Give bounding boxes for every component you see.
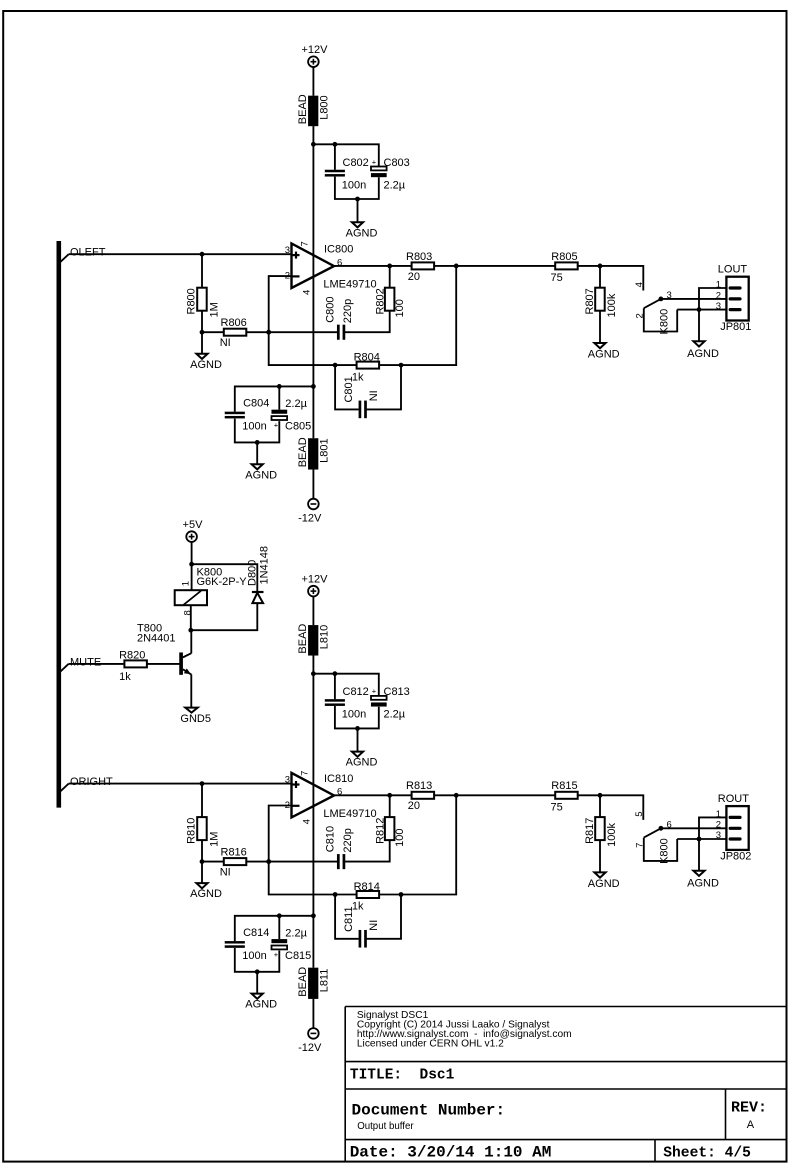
wire connector pin2 (signal) bbox=[661, 827, 729, 829]
svg-text:C811: C811 bbox=[343, 906, 355, 931]
ferrite bead L801 bbox=[297, 437, 331, 469]
svg-text:A: A bbox=[747, 1119, 755, 1131]
ground AGND (connector) bbox=[687, 871, 719, 890]
svg-text:220p: 220p bbox=[342, 299, 354, 323]
svg-text:C805: C805 bbox=[285, 421, 311, 433]
resistor R820 1k bbox=[119, 649, 147, 683]
svg-text:+12V: +12V bbox=[302, 44, 329, 56]
capacitor C804 100n bbox=[225, 398, 270, 433]
resistor R807 100k bbox=[584, 266, 618, 345]
resistor R816 NI bbox=[202, 846, 271, 878]
resistor R812 100 bbox=[374, 795, 406, 847]
svg-text:100: 100 bbox=[394, 299, 406, 317]
svg-text:100k: 100k bbox=[606, 823, 618, 847]
svg-text:3: 3 bbox=[716, 301, 721, 312]
capacitor C811 NI bbox=[343, 906, 380, 947]
ground AGND (connector) bbox=[687, 341, 719, 360]
resistor R817 100k bbox=[584, 795, 618, 874]
capacitor C814 100n bbox=[225, 927, 270, 962]
svg-text:-12V: -12V bbox=[298, 513, 322, 525]
svg-text:NI: NI bbox=[368, 390, 380, 401]
wire to relay contact bbox=[578, 264, 644, 291]
svg-text:3: 3 bbox=[716, 830, 721, 841]
wire inverting input bbox=[266, 276, 291, 335]
ground AGND (termination) bbox=[588, 343, 620, 361]
capacitor C802 100n bbox=[325, 157, 369, 192]
svg-text:1: 1 bbox=[180, 581, 191, 586]
svg-text:2.2µ: 2.2µ bbox=[384, 179, 406, 191]
relay contact K800 (right) bbox=[634, 811, 672, 863]
node ORIGHT input wire bbox=[59, 776, 292, 793]
svg-text:R806: R806 bbox=[221, 317, 247, 329]
svg-text:R802: R802 bbox=[374, 288, 386, 314]
wire feedback (comp cap row) bbox=[269, 840, 390, 862]
svg-text:Sheet: 4/5: Sheet: 4/5 bbox=[663, 1145, 751, 1161]
svg-text:2: 2 bbox=[716, 290, 721, 301]
svg-text:AGND: AGND bbox=[588, 349, 620, 361]
svg-text:4: 4 bbox=[634, 282, 645, 287]
svg-text:AGND: AGND bbox=[245, 469, 277, 481]
svg-text:2: 2 bbox=[716, 820, 721, 831]
wire inverting input bbox=[266, 806, 291, 864]
svg-text:20: 20 bbox=[408, 271, 420, 283]
svg-text:220p: 220p bbox=[342, 828, 354, 852]
wire +12V decoupling loop bbox=[313, 142, 378, 225]
svg-text:1: 1 bbox=[716, 280, 721, 291]
svg-text:JP801: JP801 bbox=[720, 321, 751, 333]
resistor R814 1k bbox=[352, 881, 380, 913]
svg-text:C812: C812 bbox=[343, 686, 369, 698]
wire -12V decoupling loop bbox=[235, 384, 314, 467]
ground AGND (decoupling -) bbox=[245, 994, 277, 1011]
svg-text:AGND: AGND bbox=[346, 227, 378, 239]
svg-text:+: + bbox=[372, 687, 377, 696]
svg-text:NI: NI bbox=[220, 337, 231, 349]
capacitor C805 2.2u (polarized) bbox=[272, 398, 312, 433]
node MUTE input wire bbox=[59, 656, 124, 673]
wire bead to -12V symbol bbox=[312, 999, 314, 1028]
resistor R805 75 bbox=[551, 251, 578, 284]
svg-text:R813: R813 bbox=[406, 780, 432, 792]
svg-text:+12V: +12V bbox=[302, 573, 329, 585]
svg-text:L810: L810 bbox=[318, 625, 330, 649]
svg-text:AGND: AGND bbox=[588, 878, 620, 890]
wire feedback (R804 row) bbox=[269, 266, 457, 368]
svg-text:20: 20 bbox=[408, 800, 420, 812]
resistor R813 20 bbox=[406, 780, 434, 812]
svg-text:R804: R804 bbox=[354, 351, 380, 363]
svg-text:G6K-2P-Y: G6K-2P-Y bbox=[197, 576, 248, 588]
svg-text:D800: D800 bbox=[247, 560, 259, 586]
svg-text:AGND: AGND bbox=[687, 877, 719, 889]
resistor R815 75 bbox=[551, 780, 578, 813]
input bus (audio/control signals) bbox=[56, 241, 61, 808]
+5V power symbol bbox=[183, 519, 204, 542]
svg-text:R817: R817 bbox=[584, 818, 596, 844]
svg-text:C810: C810 bbox=[324, 826, 336, 852]
resistor R804 1k bbox=[352, 351, 380, 383]
wire +12V to bead bbox=[312, 597, 314, 626]
wire op-amp supply pins 7/4 bbox=[311, 674, 316, 918]
wire op-amp supply pins 7/4 bbox=[311, 144, 316, 388]
-12V power symbol (right) bbox=[298, 1028, 322, 1054]
svg-text:1: 1 bbox=[716, 809, 721, 820]
relay coil K800 G6K-2P-Y bbox=[175, 566, 248, 615]
wire bead to +12V rail junction bbox=[311, 126, 316, 147]
title block bbox=[345, 1007, 786, 1162]
svg-text:R810: R810 bbox=[186, 818, 198, 844]
svg-text:GND5: GND5 bbox=[180, 713, 211, 725]
svg-text:C814: C814 bbox=[243, 927, 269, 939]
ferrite bead L810 bbox=[297, 624, 331, 656]
ground GND5 bbox=[180, 708, 211, 725]
svg-text:Licensed under CERN OHL v1.2: Licensed under CERN OHL v1.2 bbox=[357, 1039, 504, 1050]
svg-text:LME49710: LME49710 bbox=[323, 279, 376, 291]
ground AGND (decoupling -) bbox=[245, 464, 277, 481]
svg-text:C813: C813 bbox=[384, 686, 410, 698]
wire bead to +12V rail junction bbox=[311, 656, 316, 677]
svg-text:NI: NI bbox=[368, 920, 380, 931]
ground AGND (termination) bbox=[588, 872, 620, 890]
+12V power symbol (right) bbox=[302, 573, 329, 596]
resistor R803 20 bbox=[406, 251, 434, 283]
capacitor C813 2.2u (polarized) bbox=[371, 686, 410, 721]
wire feedback (comp cap row) bbox=[269, 311, 390, 333]
svg-text:-12V: -12V bbox=[298, 1042, 322, 1054]
resistor R802 100 bbox=[374, 266, 406, 318]
svg-text:C800: C800 bbox=[324, 297, 336, 323]
transistor T800 2N4401 bbox=[137, 622, 191, 674]
svg-text:100n: 100n bbox=[342, 179, 366, 191]
wire +12V decoupling loop bbox=[313, 671, 378, 754]
svg-text:ROUT: ROUT bbox=[718, 793, 749, 805]
wire C801 branch bbox=[335, 895, 401, 939]
ground AGND (input bias) bbox=[190, 332, 222, 371]
wire to series resistor bbox=[434, 264, 555, 269]
wire op-amp output bbox=[334, 793, 412, 798]
capacitor C810 220p bbox=[337, 854, 345, 869]
svg-text:3: 3 bbox=[285, 245, 290, 256]
wire coil to transistor collector bbox=[190, 605, 193, 653]
svg-text:1M: 1M bbox=[208, 832, 220, 847]
+12V power symbol (left) bbox=[302, 44, 329, 67]
svg-text:5: 5 bbox=[634, 811, 645, 816]
resistor R806 NI bbox=[202, 317, 271, 349]
ground AGND (input bias) bbox=[190, 862, 222, 901]
svg-text:OLEFT: OLEFT bbox=[70, 247, 106, 259]
relay contact K800 (left) bbox=[634, 282, 672, 334]
wire to relay contact bbox=[578, 793, 644, 820]
svg-text:7: 7 bbox=[299, 771, 310, 776]
svg-text:4: 4 bbox=[301, 819, 312, 824]
svg-text:100n: 100n bbox=[342, 709, 366, 721]
svg-text:LOUT: LOUT bbox=[718, 263, 748, 275]
wire feedback (R804 row) bbox=[269, 795, 457, 897]
label C800 bbox=[324, 297, 354, 324]
svg-text:3: 3 bbox=[285, 774, 290, 785]
wire op-amp output bbox=[334, 264, 412, 269]
svg-text:L801: L801 bbox=[318, 438, 330, 462]
svg-text:R812: R812 bbox=[374, 818, 386, 844]
op-amp IC810 LME49710 bbox=[285, 771, 377, 825]
wire to flyback diode bbox=[192, 564, 258, 592]
capacitor C800 220p bbox=[337, 325, 345, 340]
svg-text:Date: 3/20/14 1:10 AM: Date: 3/20/14 1:10 AM bbox=[350, 1143, 552, 1161]
svg-text:2.2µ: 2.2µ bbox=[285, 927, 307, 939]
capacitor C803 2.2u (polarized) bbox=[371, 157, 410, 192]
svg-text:1M: 1M bbox=[208, 302, 220, 317]
wire bead to -12V symbol bbox=[312, 470, 314, 499]
svg-text:AGND: AGND bbox=[346, 757, 378, 769]
svg-text:NI: NI bbox=[220, 866, 231, 878]
wire relay arm to ground net bbox=[644, 838, 677, 861]
svg-text:+: + bbox=[372, 157, 377, 166]
svg-text:AGND: AGND bbox=[687, 348, 719, 360]
svg-text:100n: 100n bbox=[242, 950, 266, 962]
svg-text:+: + bbox=[274, 950, 279, 959]
svg-text:2.2µ: 2.2µ bbox=[285, 398, 307, 410]
wire -12V decoupling loop bbox=[235, 913, 314, 996]
label C810 bbox=[324, 826, 354, 853]
wire relay arm to ground net bbox=[644, 308, 677, 331]
diode D800 1N4148 bbox=[247, 546, 271, 603]
svg-text:R820: R820 bbox=[119, 649, 145, 661]
svg-text:+: + bbox=[274, 421, 279, 430]
svg-text:1N4148: 1N4148 bbox=[258, 546, 270, 585]
svg-text:75: 75 bbox=[551, 801, 563, 813]
svg-text:C804: C804 bbox=[243, 398, 269, 410]
wire to series resistor bbox=[434, 793, 555, 798]
wire emitter to GND5 bbox=[190, 674, 192, 710]
wire C801 branch bbox=[335, 365, 401, 409]
svg-text:L811: L811 bbox=[318, 969, 330, 993]
svg-text:BEAD: BEAD bbox=[297, 437, 309, 467]
svg-text:Document Number:: Document Number: bbox=[352, 1101, 506, 1119]
svg-text:AGND: AGND bbox=[190, 888, 222, 900]
wire +5V to relay coil bbox=[189, 542, 194, 590]
svg-text:TITLE: Dsc1: TITLE: Dsc1 bbox=[350, 1068, 455, 1084]
resistor R810 1M bbox=[186, 784, 221, 864]
wire -12V rail bbox=[312, 386, 314, 438]
svg-text:2N4401: 2N4401 bbox=[137, 633, 176, 645]
svg-text:Output buffer: Output buffer bbox=[357, 1121, 414, 1132]
svg-text:AGND: AGND bbox=[245, 999, 277, 1011]
wire +12V to bead bbox=[312, 67, 314, 96]
svg-text:R805: R805 bbox=[551, 251, 577, 263]
svg-text:7: 7 bbox=[299, 241, 310, 246]
svg-text:ORIGHT: ORIGHT bbox=[70, 776, 113, 788]
svg-text:75: 75 bbox=[551, 272, 563, 284]
svg-text:R803: R803 bbox=[406, 251, 432, 263]
connector JP802 ROUT bbox=[716, 793, 752, 863]
capacitor C815 2.2u (polarized) bbox=[272, 927, 312, 962]
svg-text:LME49710: LME49710 bbox=[323, 808, 376, 820]
wire connector pin1 to ground bbox=[699, 288, 729, 344]
capacitor C812 100n bbox=[325, 686, 369, 721]
svg-text:100k: 100k bbox=[606, 293, 618, 317]
wire diode to coil bottom bbox=[188, 603, 257, 633]
node OLEFT input wire bbox=[59, 247, 292, 264]
svg-text:1k: 1k bbox=[119, 671, 131, 683]
svg-text:IC800: IC800 bbox=[324, 244, 353, 256]
svg-text:R807: R807 bbox=[584, 288, 596, 314]
svg-text:AGND: AGND bbox=[190, 359, 222, 371]
ferrite bead L800 bbox=[297, 94, 331, 126]
svg-text:C801: C801 bbox=[343, 376, 355, 402]
resistor R800 1M bbox=[186, 254, 221, 334]
ground AGND (decoupling +) bbox=[346, 752, 378, 769]
svg-text:BEAD: BEAD bbox=[297, 624, 309, 654]
wire connector pin2 (signal) bbox=[661, 298, 729, 300]
svg-text:C815: C815 bbox=[285, 950, 311, 962]
wire connector pin3 / ground bbox=[677, 307, 729, 312]
-12V power symbol (left) bbox=[298, 499, 322, 525]
svg-text:4: 4 bbox=[301, 290, 312, 295]
wire -12V rail bbox=[312, 916, 314, 968]
connector JP801 LOUT bbox=[716, 263, 752, 333]
op-amp IC800 LME49710 bbox=[285, 241, 377, 295]
svg-text:IC810: IC810 bbox=[324, 773, 353, 785]
ferrite bead L811 bbox=[297, 967, 331, 999]
svg-text:R814: R814 bbox=[354, 881, 380, 893]
svg-text:JP802: JP802 bbox=[720, 850, 751, 862]
capacitor C801 NI bbox=[343, 376, 380, 418]
wire connector pin1 to ground bbox=[699, 817, 729, 873]
svg-text:BEAD: BEAD bbox=[297, 967, 309, 997]
svg-text:100: 100 bbox=[394, 829, 406, 847]
svg-text:C803: C803 bbox=[384, 157, 410, 169]
svg-text:L800: L800 bbox=[318, 95, 330, 119]
svg-text:R800: R800 bbox=[186, 288, 198, 314]
svg-text:100n: 100n bbox=[242, 421, 266, 433]
svg-text:R816: R816 bbox=[221, 846, 247, 858]
wire R820 to base bbox=[147, 663, 180, 665]
wire connector pin3 / ground bbox=[677, 837, 729, 842]
svg-text:2.2µ: 2.2µ bbox=[384, 709, 406, 721]
svg-text:R815: R815 bbox=[551, 780, 577, 792]
svg-text:+5V: +5V bbox=[183, 519, 204, 531]
svg-text:BEAD: BEAD bbox=[297, 94, 309, 124]
svg-text:C802: C802 bbox=[343, 157, 369, 169]
svg-text:MUTE: MUTE bbox=[70, 656, 101, 668]
ground AGND (decoupling +) bbox=[346, 222, 378, 239]
svg-text:REV:: REV: bbox=[731, 1100, 767, 1117]
